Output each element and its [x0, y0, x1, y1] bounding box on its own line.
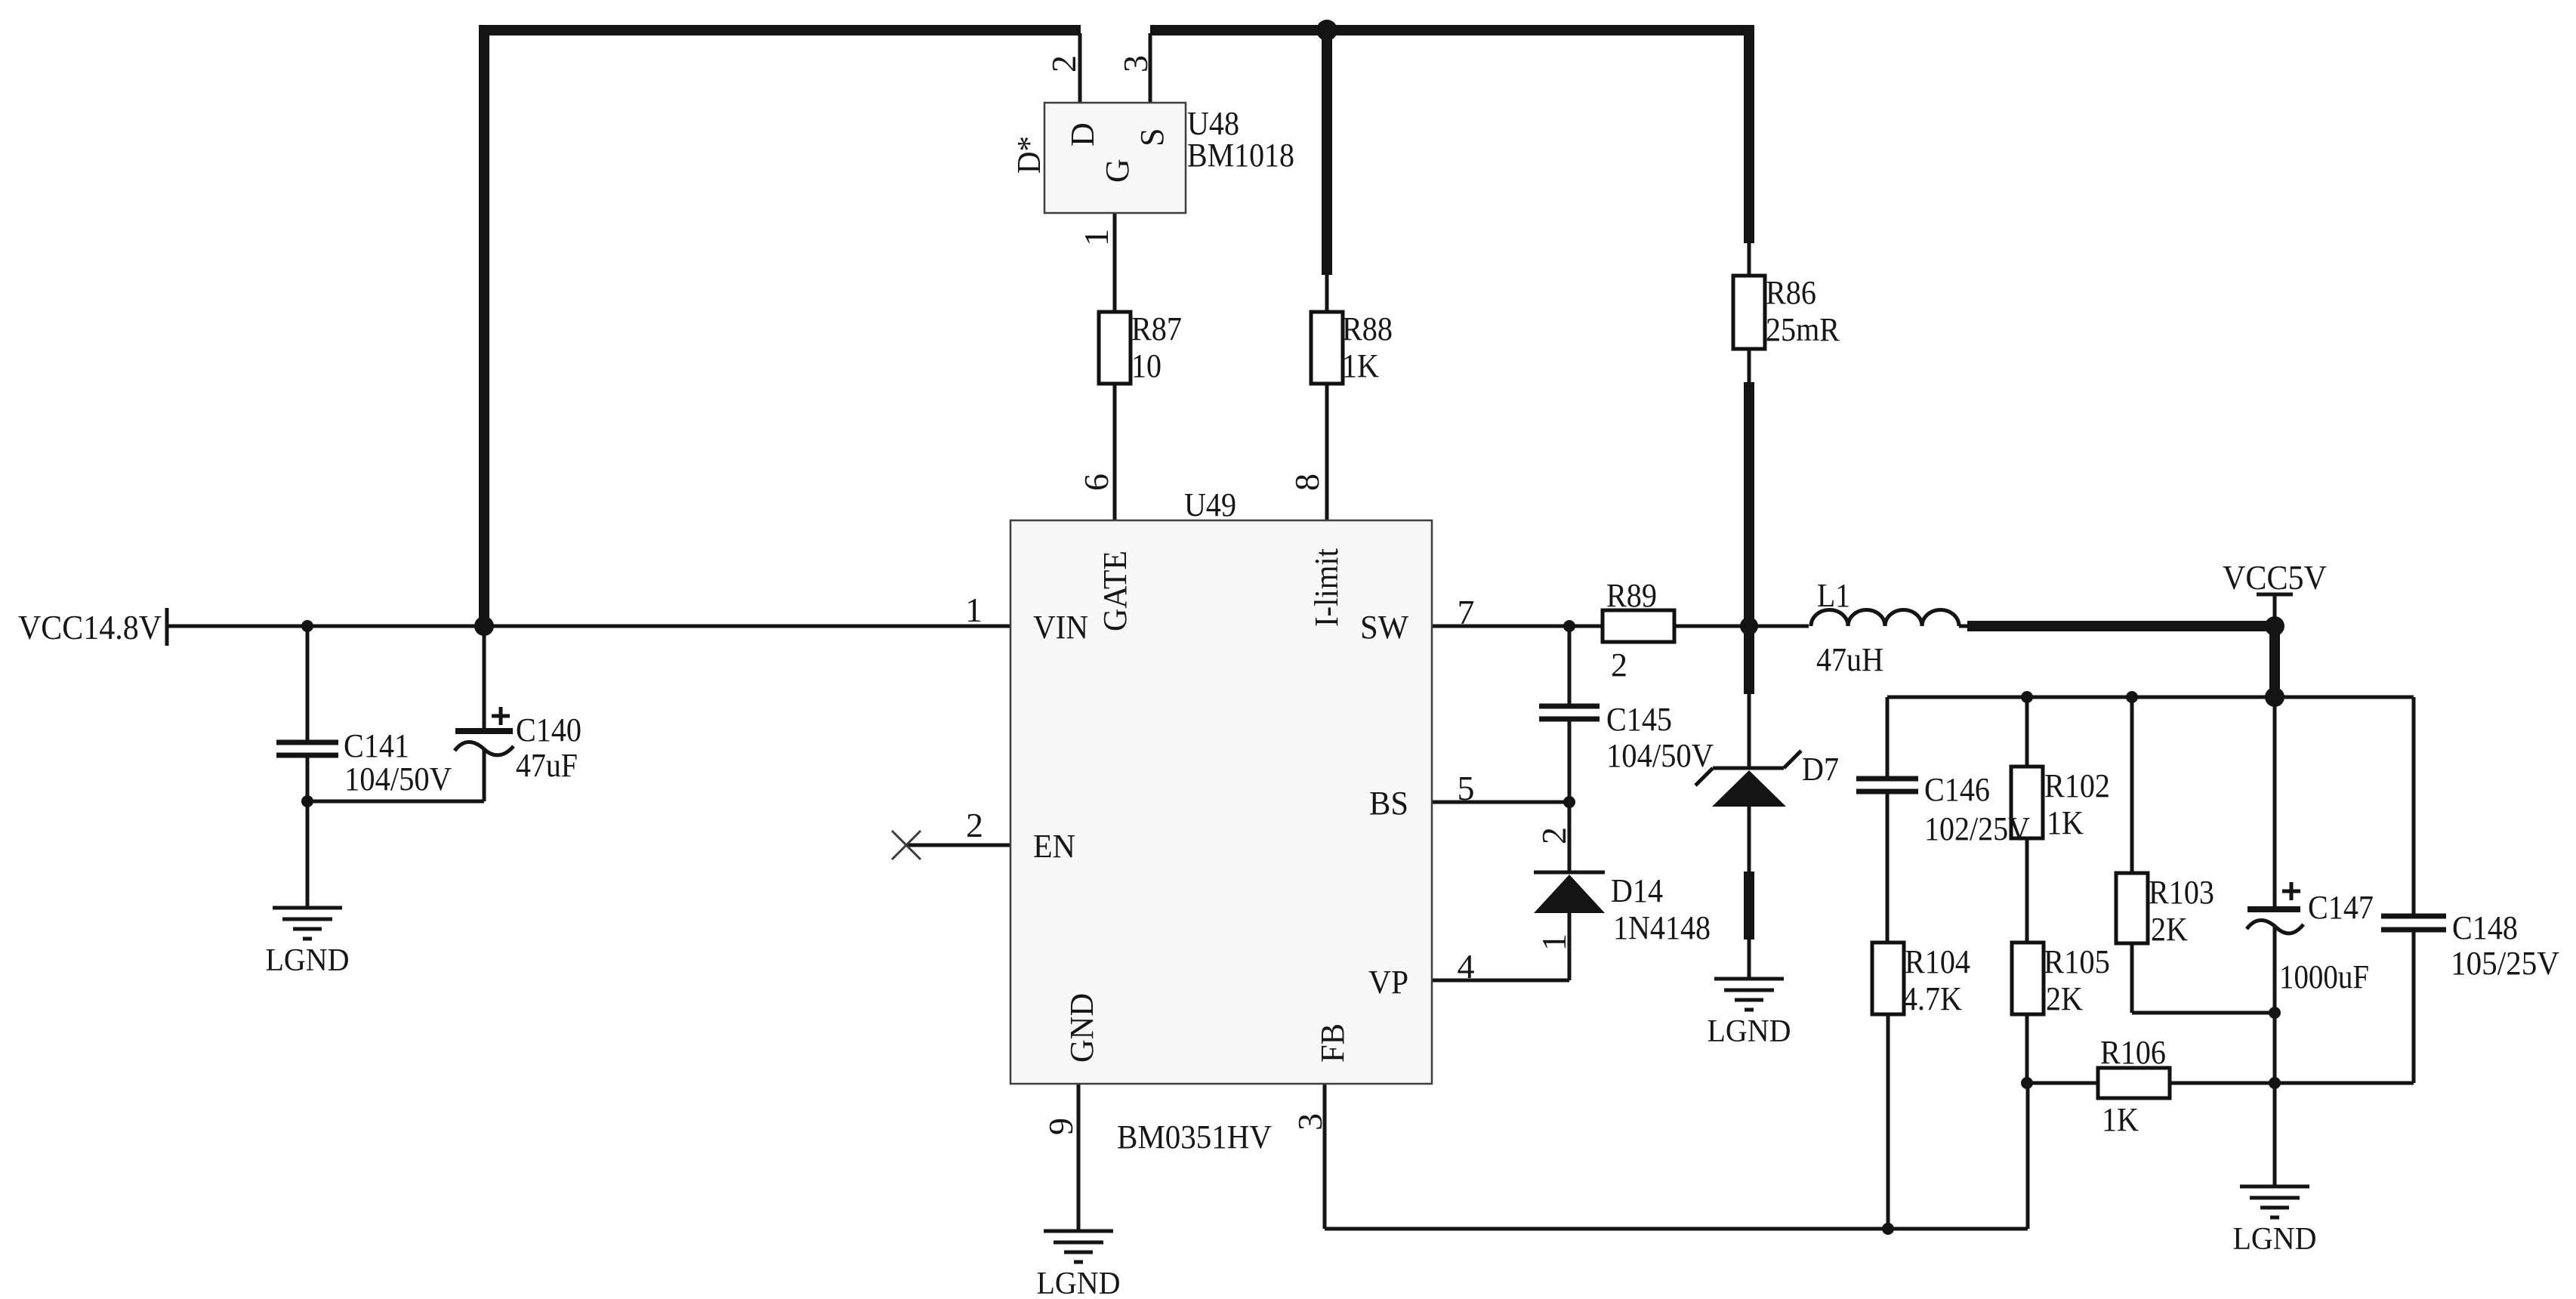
- svg-text:3: 3: [1291, 1113, 1329, 1131]
- svg-text:2: 2: [966, 806, 983, 844]
- svg-text:1: 1: [1535, 933, 1573, 951]
- svg-text:7: 7: [1458, 593, 1475, 631]
- svg-text:2K: 2K: [2151, 911, 2188, 948]
- svg-text:LGND: LGND: [1037, 1267, 1121, 1299]
- svg-text:8: 8: [1288, 474, 1326, 491]
- svg-text:D: D: [1064, 122, 1101, 147]
- svg-text:5: 5: [1458, 769, 1475, 807]
- svg-text:C145: C145: [1606, 701, 1672, 738]
- svg-text:SW: SW: [1360, 609, 1408, 646]
- svg-text:BM0351HV: BM0351HV: [1117, 1118, 1272, 1156]
- svg-text:47uH: 47uH: [1816, 641, 1883, 678]
- svg-text:2: 2: [1044, 55, 1083, 73]
- svg-text:104/50V: 104/50V: [344, 761, 452, 798]
- svg-text:1000uF: 1000uF: [2279, 958, 2369, 995]
- svg-text:GND: GND: [1063, 993, 1100, 1063]
- svg-text:2K: 2K: [2046, 980, 2083, 1017]
- svg-text:S: S: [1134, 128, 1171, 147]
- svg-text:1K: 1K: [1342, 347, 1379, 384]
- svg-text:R104: R104: [1905, 943, 1970, 980]
- svg-text:2: 2: [1611, 646, 1627, 683]
- svg-text:R105: R105: [2044, 943, 2110, 980]
- svg-text:105/25V: 105/25V: [2451, 945, 2559, 982]
- svg-text:BS: BS: [1369, 785, 1408, 822]
- svg-text:U49: U49: [1184, 486, 1236, 523]
- svg-text:6: 6: [1077, 474, 1115, 491]
- svg-text:C147: C147: [2308, 889, 2374, 926]
- svg-text:1K: 1K: [2047, 804, 2084, 841]
- svg-text:1: 1: [1077, 229, 1115, 246]
- svg-text:VCC5V: VCC5V: [2223, 558, 2327, 597]
- svg-text:R106: R106: [2100, 1034, 2166, 1071]
- svg-text:VP: VP: [1368, 964, 1408, 1001]
- svg-text:104/50V: 104/50V: [1606, 737, 1714, 774]
- svg-text:C140: C140: [516, 711, 582, 748]
- svg-text:LGND: LGND: [2233, 1222, 2317, 1257]
- svg-text:I-limit: I-limit: [1308, 548, 1345, 627]
- svg-text:VIN: VIN: [1033, 609, 1088, 646]
- svg-text:4: 4: [1458, 947, 1475, 986]
- svg-text:1: 1: [965, 591, 983, 629]
- svg-text:D*: D*: [1010, 136, 1047, 174]
- svg-text:GATE: GATE: [1097, 551, 1134, 631]
- svg-text:R86: R86: [1766, 274, 1816, 311]
- svg-text:10: 10: [1131, 347, 1162, 384]
- svg-text:C148: C148: [2452, 909, 2518, 946]
- svg-text:EN: EN: [1033, 828, 1075, 865]
- svg-text:1K: 1K: [2102, 1101, 2139, 1138]
- svg-text:R102: R102: [2044, 767, 2110, 804]
- svg-text:LGND: LGND: [266, 943, 350, 978]
- svg-text:2: 2: [1535, 827, 1573, 844]
- svg-text:R87: R87: [1131, 310, 1182, 347]
- svg-text:C146: C146: [1924, 771, 1990, 808]
- svg-text:3: 3: [1116, 55, 1155, 73]
- svg-text:C141: C141: [344, 727, 409, 764]
- svg-text:47uF: 47uF: [516, 747, 578, 784]
- svg-text:R89: R89: [1606, 577, 1657, 614]
- svg-text:D7: D7: [1802, 751, 1839, 788]
- svg-text:FB: FB: [1314, 1023, 1351, 1063]
- svg-text:102/25V: 102/25V: [1924, 810, 2030, 847]
- svg-text:25mR: 25mR: [1766, 311, 1840, 348]
- svg-text:R88: R88: [1342, 310, 1393, 347]
- svg-text:R103: R103: [2149, 874, 2214, 911]
- svg-text:D14: D14: [1611, 872, 1663, 909]
- svg-text:G: G: [1099, 159, 1136, 183]
- svg-text:LGND: LGND: [1708, 1014, 1791, 1049]
- svg-text:1N4148: 1N4148: [1613, 909, 1711, 946]
- svg-text:4.7K: 4.7K: [1902, 980, 1962, 1017]
- svg-text:VCC14.8V: VCC14.8V: [18, 608, 162, 646]
- svg-text:L1: L1: [1817, 577, 1850, 614]
- svg-text:9: 9: [1041, 1118, 1080, 1135]
- svg-text:BM1018: BM1018: [1187, 137, 1294, 174]
